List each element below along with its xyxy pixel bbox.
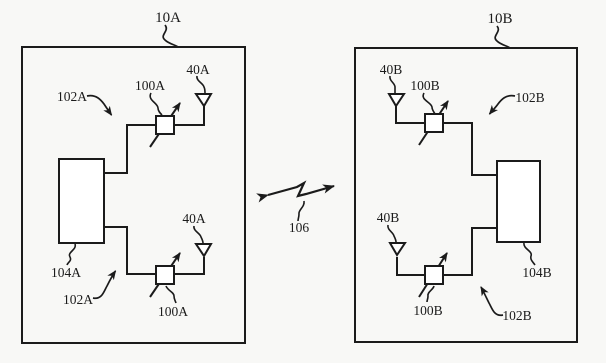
leader arrow for bottom 102A <box>93 271 116 298</box>
antenna 40B (bottom) <box>390 243 405 255</box>
leader for bottom 40A <box>194 226 203 243</box>
svg-text:102B: 102B <box>515 90 544 105</box>
antenna 40A (bottom) <box>196 244 211 256</box>
adjustable arrow through bottom coupler 100B <box>419 253 447 297</box>
svg-text:102B: 102B <box>502 308 531 323</box>
svg-text:10A: 10A <box>155 10 181 26</box>
svg-text:40A: 40A <box>182 211 206 226</box>
wire: bottom coupler to bottom antenna <box>173 257 204 274</box>
svg-text:100A: 100A <box>135 78 165 93</box>
leader for top 40B <box>390 76 395 93</box>
svg-text:104A: 104A <box>51 265 81 280</box>
leader for top 100A <box>150 93 162 115</box>
svg-text:104B: 104B <box>522 265 551 280</box>
device 10A outer box <box>22 47 245 343</box>
coupler 100A (top) <box>156 116 174 134</box>
leader for bottom 100B <box>427 286 434 302</box>
leader for 104A <box>67 244 75 265</box>
leader for top 40A <box>197 76 205 93</box>
adjustable arrow through top coupler 100B <box>419 101 448 145</box>
component box 104B <box>497 161 540 242</box>
antenna 40B (top) <box>389 94 404 106</box>
leader arrow for bottom 102B <box>481 287 503 315</box>
svg-text:100B: 100B <box>410 78 439 93</box>
wire: top coupler to 104B <box>442 123 497 175</box>
leader for 10B <box>495 26 510 48</box>
coupler 100A (bottom) <box>156 266 174 284</box>
svg-text:106: 106 <box>289 220 310 235</box>
leader for top 100B <box>423 93 435 114</box>
svg-text:40B: 40B <box>377 210 400 225</box>
wire: bottom coupler to 104B <box>442 228 497 275</box>
leader for 106 <box>298 201 304 221</box>
leader for bottom 40B <box>388 225 396 242</box>
component box 104A <box>59 159 104 243</box>
svg-text:40B: 40B <box>380 62 403 77</box>
svg-text:40A: 40A <box>186 62 210 77</box>
antenna 40A (top) <box>196 94 211 106</box>
wire: top coupler to top antenna <box>173 106 204 125</box>
svg-text:100B: 100B <box>413 303 442 318</box>
svg-text:102A: 102A <box>57 89 87 104</box>
leader for bottom 100A <box>166 286 176 303</box>
leader arrow for top 102B <box>490 96 516 114</box>
wireless link 106 double arrow with zigzag <box>268 183 334 196</box>
device 10B outer box <box>355 48 577 342</box>
coupler 100B (bottom) <box>425 266 443 284</box>
svg-text:10B: 10B <box>487 11 512 27</box>
wire: 104A to bottom coupler (path 102A) <box>104 227 157 274</box>
adjustable arrow through top coupler 100A <box>150 103 180 147</box>
adjustable arrow through bottom coupler 100A <box>150 253 180 297</box>
leader for 10A <box>163 25 178 47</box>
leader for 104B <box>524 243 535 265</box>
wire: 104A to top coupler (path 102A) <box>104 125 157 173</box>
svg-text:102A: 102A <box>63 292 93 307</box>
svg-text:100A: 100A <box>158 304 188 319</box>
wire: top antenna to top coupler (path 102B) <box>396 106 426 123</box>
leader arrow for top 102A <box>87 96 112 115</box>
coupler 100B (top) <box>425 114 443 132</box>
wire: bottom antenna to bottom coupler (path 102B) <box>397 257 426 275</box>
